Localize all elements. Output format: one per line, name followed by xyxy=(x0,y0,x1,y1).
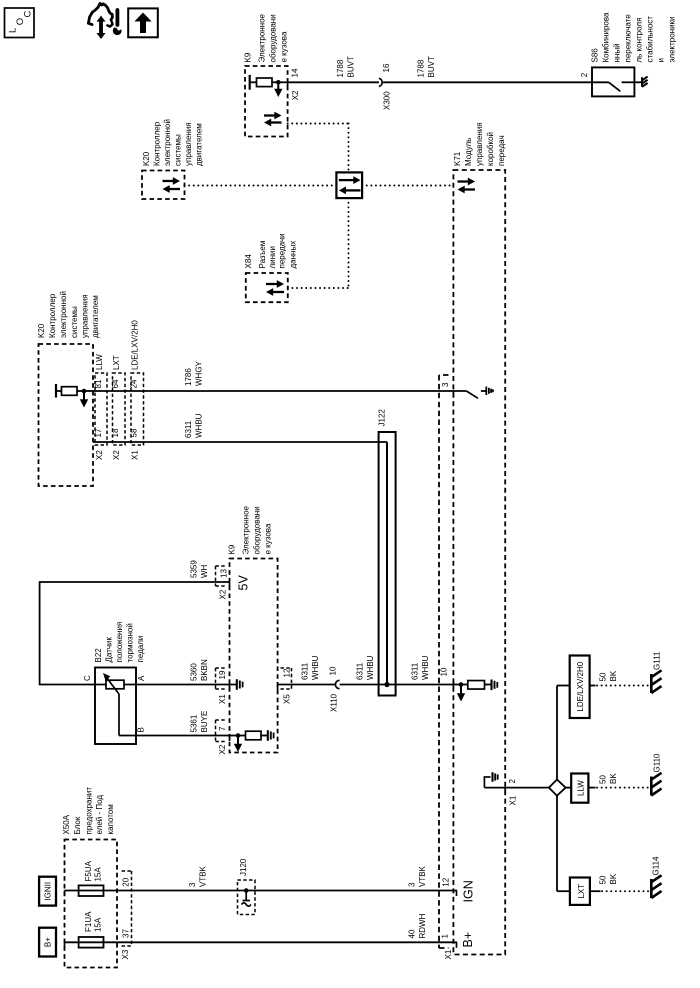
svg-text:12: 12 xyxy=(283,668,292,677)
pin 3 tick at K71 boundary xyxy=(452,391,454,397)
svg-text:RDWH: RDWH xyxy=(418,913,427,938)
G114 label xyxy=(652,856,661,876)
pin 37 label xyxy=(122,929,131,938)
svg-text:WHBU: WHBU xyxy=(421,655,430,680)
svg-text:17: 17 xyxy=(94,428,103,437)
wire label 3 VTBK (right) xyxy=(408,865,428,887)
svg-text:J120: J120 xyxy=(239,858,248,876)
svg-text:X300: X300 xyxy=(383,91,392,110)
svg-text:X2: X2 xyxy=(95,450,104,460)
K71 internal arrow (pin 10) xyxy=(457,687,465,702)
B+ label inside K71 xyxy=(461,932,475,948)
X84 DLC dashed box xyxy=(246,273,288,302)
svg-text:C: C xyxy=(83,675,92,681)
svg-text:VTBK: VTBK xyxy=(199,865,208,887)
svg-text:электронной: электронной xyxy=(59,291,68,338)
IGN label inside K71 xyxy=(462,880,476,902)
svg-text:19: 19 xyxy=(218,670,227,679)
wire 40 RDWH (battery feed) xyxy=(65,942,458,948)
svg-text:X50A: X50A xyxy=(62,814,71,834)
svg-text:5361: 5361 xyxy=(190,714,199,732)
svg-text:50: 50 xyxy=(599,775,608,784)
K9 internal arrow (pin 7) xyxy=(234,738,242,753)
K20 engine controller dashed box xyxy=(39,344,94,486)
K20 internal resistor xyxy=(56,387,77,396)
wire label 50 BK (G110) xyxy=(599,773,619,784)
K9 internal resistor (pin 7) xyxy=(246,731,262,740)
pin 13 tick at K9 boundary xyxy=(229,582,231,588)
svg-text:5359: 5359 xyxy=(190,560,199,578)
svg-text:K20: K20 xyxy=(142,151,151,166)
pin 10 label (K71) xyxy=(440,667,449,676)
K9 (middle) label xyxy=(228,505,273,554)
pin 12 tick xyxy=(277,685,279,691)
wire label 1788 BUVT (right) xyxy=(417,56,437,77)
ground inside K9 (pin 7) xyxy=(261,730,274,741)
pin 58 label xyxy=(130,428,139,437)
IGNII feed tag xyxy=(39,877,56,906)
connector X1 label (pin 58) xyxy=(131,450,140,460)
pin 3 label (K71) xyxy=(441,382,450,387)
pin 1 label (K71 X1) xyxy=(441,934,450,939)
svg-text:BKBN: BKBN xyxy=(200,659,209,681)
connector X3 label xyxy=(121,949,130,959)
K9 internal output arrow xyxy=(274,84,282,97)
wire label 6311 WHBU (middle) xyxy=(356,655,376,680)
svg-text:LDE/LXV/2H0: LDE/LXV/2H0 xyxy=(576,661,585,711)
svg-text:электроники: электроники xyxy=(668,16,677,62)
ground symbol inside K71 (pin 2) xyxy=(484,772,497,787)
svg-text:14: 14 xyxy=(291,68,300,77)
svg-text:S86: S86 xyxy=(591,48,600,63)
X110 label xyxy=(330,693,339,712)
svg-text:BUYE: BUYE xyxy=(200,711,209,733)
X50A label xyxy=(62,787,115,835)
svg-text:81: 81 xyxy=(94,379,103,388)
K71 X1 connector bracket xyxy=(439,375,449,948)
K9 internal pull-up node (pin 7) xyxy=(230,733,246,738)
pin 13 label xyxy=(220,569,229,578)
K9 internal resistor xyxy=(250,78,272,87)
svg-text:LLW: LLW xyxy=(576,780,585,796)
svg-text:24: 24 xyxy=(130,379,139,388)
svg-text:оборудовани: оборудовани xyxy=(269,14,278,62)
svg-text:Модуль: Модуль xyxy=(464,138,473,166)
ground G114 xyxy=(651,875,661,898)
svg-text:20: 20 xyxy=(122,877,131,886)
svg-text:двигателем: двигателем xyxy=(195,123,204,166)
X84 data-link arrows xyxy=(266,280,284,296)
pin 14 label xyxy=(291,68,300,77)
svg-text:BUVT: BUVT xyxy=(427,56,436,77)
ground inside K9 (pin 19) xyxy=(230,679,243,690)
svg-text:стабильност: стабильност xyxy=(646,16,655,63)
svg-text:коробкой: коробкой xyxy=(486,132,495,166)
svg-text:LDE/LXV/2H0: LDE/LXV/2H0 xyxy=(131,320,140,370)
inline data connector box xyxy=(336,172,362,198)
wire splice to LLW xyxy=(566,787,572,789)
svg-text:ль контроля: ль контроля xyxy=(635,18,644,63)
K9 internal B+ bar xyxy=(249,75,251,90)
pin 19 label xyxy=(218,670,227,679)
svg-text:положения: положения xyxy=(115,622,124,663)
G110 label xyxy=(653,753,662,773)
connector X1 label (pin 19) xyxy=(218,694,227,704)
pin 12 label xyxy=(283,668,292,677)
K20 internal output node xyxy=(77,389,93,394)
svg-text:WHGY: WHGY xyxy=(195,360,204,386)
pin A label xyxy=(137,675,146,681)
variant label LDE/LXV/2H0 xyxy=(131,320,140,370)
pin 7 label xyxy=(218,726,227,731)
svg-text:K71: K71 xyxy=(453,151,462,166)
svg-text:37: 37 xyxy=(122,929,131,938)
svg-text:системы: системы xyxy=(70,306,79,338)
pin 19 bracket xyxy=(216,668,228,689)
svg-text:6311: 6311 xyxy=(411,662,420,680)
pin 2 label (S86) xyxy=(580,72,589,77)
variant pin box LXT xyxy=(113,373,126,445)
svg-text:и: и xyxy=(657,58,666,62)
wire label 5361 BUYE xyxy=(190,711,210,733)
wire splice to LXT xyxy=(557,796,570,892)
svg-text:13: 13 xyxy=(220,569,229,578)
svg-text:елей - Под: елей - Под xyxy=(95,795,104,835)
svg-text:предохранит: предохранит xyxy=(85,787,94,835)
pin 18 label xyxy=(111,428,120,437)
svg-text:переключате: переключате xyxy=(624,14,633,63)
svg-text:линии: линии xyxy=(268,246,277,269)
svg-text:X2: X2 xyxy=(291,90,300,100)
S86 internal switch xyxy=(592,82,634,91)
svg-text:6311: 6311 xyxy=(301,662,310,680)
svg-text:Блок: Блок xyxy=(73,816,82,834)
svg-text:нный: нный xyxy=(613,43,622,62)
svg-text:IGNII: IGNII xyxy=(43,882,52,901)
svg-text:X1: X1 xyxy=(131,450,140,460)
svg-text:3: 3 xyxy=(441,382,450,387)
svg-text:10: 10 xyxy=(329,666,338,675)
wire label 5360 BKBN xyxy=(190,659,210,681)
vehicle-data/service icon xyxy=(88,3,121,39)
svg-text:K9: K9 xyxy=(244,52,253,62)
svg-text:1: 1 xyxy=(441,934,450,939)
connector X1 label (pin 2) xyxy=(509,795,518,805)
fuse F5UA xyxy=(79,885,104,896)
svg-text:G110: G110 xyxy=(653,753,662,773)
svg-text:X2: X2 xyxy=(218,744,227,754)
J120 label xyxy=(239,858,248,876)
svg-text:WHBU: WHBU xyxy=(195,413,204,438)
svg-text:BUVT: BUVT xyxy=(347,56,356,77)
svg-text:капотом: капотом xyxy=(106,804,115,834)
fuse F1UA label xyxy=(84,911,103,932)
K20 engine controller (top) dashed box xyxy=(142,171,185,200)
svg-text:VTBK: VTBK xyxy=(418,865,427,887)
dotted wire to G111 xyxy=(597,685,650,687)
B22 potentiometer xyxy=(95,680,136,689)
pin 14 tick at K9 boundary xyxy=(287,82,289,88)
svg-text:3: 3 xyxy=(408,882,417,887)
svg-text:LXT: LXT xyxy=(112,355,121,370)
dotted data wire from inline connector to X84 xyxy=(288,198,349,288)
dotted data wire from K9 xyxy=(288,124,349,172)
pin 10 tick xyxy=(452,681,454,688)
svg-text:Контроллер: Контроллер xyxy=(48,293,57,338)
svg-text:X1: X1 xyxy=(218,694,227,704)
chassis ground at S86 xyxy=(642,77,648,87)
S86 ground wire xyxy=(634,81,642,83)
svg-text:Электронное: Электронное xyxy=(242,505,251,554)
K71 internal node (pin 10) xyxy=(453,682,467,687)
wire label 6311 WHBU upper xyxy=(184,413,204,438)
svg-text:BK: BK xyxy=(609,670,618,681)
svg-text:15A: 15A xyxy=(94,867,103,882)
pin 2 label xyxy=(508,779,517,784)
svg-text:двигателем: двигателем xyxy=(91,295,100,338)
svg-text:WHBU: WHBU xyxy=(311,655,320,680)
svg-text:данных: данных xyxy=(289,241,298,269)
B22 sensor box xyxy=(95,668,136,745)
wire label 50 BK (G111) xyxy=(599,670,619,681)
svg-text:е кузова: е кузова xyxy=(280,31,289,62)
wire 1788 BUVT (K9 to X300) xyxy=(288,81,379,83)
fuse F5UA label xyxy=(84,860,103,881)
wire label 6311 WHBU (left) xyxy=(301,655,321,680)
wire label 50 BK (G114) xyxy=(599,873,619,884)
pin B label xyxy=(137,727,146,732)
wire K71 pin 2 to ground splice xyxy=(484,788,549,794)
wire 3 VTBK (ignition feed) xyxy=(65,891,458,897)
K20 (top) label xyxy=(142,119,204,166)
svg-text:J122: J122 xyxy=(378,409,387,427)
wire 6311 WHBU (X110 to K71) xyxy=(340,682,454,687)
svg-text:3: 3 xyxy=(188,882,197,887)
inline connector X110 xyxy=(335,680,339,688)
svg-text:Электронное: Электронное xyxy=(258,13,267,62)
wire 1788 BUVT (X300 to S86) xyxy=(383,81,592,83)
wire label 1788 BUVT (left) xyxy=(336,56,356,77)
svg-text:L: L xyxy=(8,28,19,33)
svg-text:6311: 6311 xyxy=(184,420,193,438)
svg-text:2: 2 xyxy=(508,779,517,784)
connector X1 label (K71 bottom) xyxy=(444,949,453,959)
variant pin box LDE/LXV/2H0 xyxy=(131,373,144,445)
svg-text:педали: педали xyxy=(136,636,145,663)
ground splice diamond xyxy=(549,780,566,796)
K9 data-link arrows xyxy=(264,112,282,127)
svg-text:6311: 6311 xyxy=(356,662,365,680)
G111 label xyxy=(653,651,662,670)
svg-text:WH: WH xyxy=(200,564,209,578)
svg-text:5360: 5360 xyxy=(190,663,199,681)
variant label LXT xyxy=(112,355,121,370)
svg-text:системы: системы xyxy=(174,134,183,166)
svg-text:X84: X84 xyxy=(244,254,253,269)
svg-text:LLW: LLW xyxy=(95,354,104,370)
S86 switch box xyxy=(592,67,634,96)
pin 64 label xyxy=(111,379,120,388)
svg-text:е кузова: е кузова xyxy=(264,523,273,554)
LLW variant tag xyxy=(571,774,588,803)
K9 (top) label xyxy=(244,13,289,62)
inline connector X300 xyxy=(379,78,382,86)
svg-text:Разъем: Разъем xyxy=(258,241,267,269)
wire label 40 RDWH xyxy=(408,913,428,938)
svg-text:58: 58 xyxy=(130,428,139,437)
svg-text:X1: X1 xyxy=(444,949,453,959)
forward/up arrow icon xyxy=(128,8,158,37)
svg-text:A: A xyxy=(137,675,146,681)
svg-text:1788: 1788 xyxy=(417,59,426,77)
S86 label xyxy=(591,12,677,63)
svg-text:15A: 15A xyxy=(94,917,103,932)
svg-text:передач: передач xyxy=(497,135,506,166)
svg-text:BK: BK xyxy=(609,873,618,884)
pin 12 bracket (K9 X5) xyxy=(281,668,292,689)
svg-text:передачи: передачи xyxy=(278,233,287,268)
pin 17 label xyxy=(94,428,103,437)
LOC legend icon xyxy=(5,8,35,38)
svg-text:C: C xyxy=(23,11,34,18)
connector X2 label (K9 pin 14) xyxy=(291,90,300,100)
pin 24 label xyxy=(130,379,139,388)
svg-text:5V: 5V xyxy=(237,575,251,591)
svg-text:LXT: LXT xyxy=(577,884,586,899)
X3 connector bracket xyxy=(122,871,132,946)
wire stub right of LXT tag xyxy=(590,890,601,892)
pin 12 tick xyxy=(456,891,458,897)
connector X2 label (pin 7) xyxy=(218,744,227,754)
svg-text:B: B xyxy=(137,727,146,732)
svg-text:1788: 1788 xyxy=(336,59,345,77)
K71 data-link arrows xyxy=(458,178,476,194)
svg-text:X2: X2 xyxy=(112,450,121,460)
wire stub right of LDE tag xyxy=(590,685,596,687)
svg-text:F1UA: F1UA xyxy=(84,911,93,932)
pin 81 label xyxy=(94,379,103,388)
svg-text:Комбинирова: Комбинирова xyxy=(602,12,611,63)
svg-text:1786: 1786 xyxy=(184,368,193,386)
LXT variant tag xyxy=(570,878,590,905)
svg-text:X3: X3 xyxy=(121,949,130,959)
svg-text:2: 2 xyxy=(580,72,589,77)
svg-text:18: 18 xyxy=(111,428,120,437)
K71 label xyxy=(453,122,506,166)
pin 7 bracket xyxy=(216,720,228,742)
svg-text:40: 40 xyxy=(408,929,417,938)
wire 5361 BUYE (B22 pin B to K9) xyxy=(119,735,230,737)
wire 6311 WHBU (K9 to X110) xyxy=(278,684,336,686)
pin C label xyxy=(83,675,92,681)
ground at K71 switch xyxy=(486,387,493,395)
svg-text:50: 50 xyxy=(599,875,608,884)
dotted wire to G110 xyxy=(597,787,650,789)
wire 6311 WHBU upper xyxy=(93,441,387,443)
svg-text:B+: B+ xyxy=(461,932,475,948)
svg-text:K20: K20 xyxy=(37,323,46,338)
pin 7 tick xyxy=(229,736,231,742)
svg-text:электронной: электронной xyxy=(163,119,172,166)
K20 internal B+ bar xyxy=(55,384,57,398)
K71 internal switch xyxy=(466,391,486,398)
svg-text:управления: управления xyxy=(184,122,193,166)
svg-text:оборудовани: оборудовани xyxy=(253,506,262,554)
K71 internal resistor (pin 10) xyxy=(468,681,485,690)
X84 label xyxy=(244,233,298,268)
J120 splice xyxy=(238,880,256,915)
svg-text:X5: X5 xyxy=(283,694,292,704)
wire 1786 WHGY xyxy=(93,390,466,392)
B22 label xyxy=(94,622,145,663)
wire 5360 BKBN (B22 pin A to K9) xyxy=(136,684,230,686)
svg-text:тормозной: тормозной xyxy=(126,623,135,662)
svg-text:16: 16 xyxy=(382,63,391,72)
svg-text:50: 50 xyxy=(599,672,608,681)
svg-text:управления: управления xyxy=(475,122,484,166)
svg-text:WHBU: WHBU xyxy=(366,655,375,680)
fuse F1UA xyxy=(79,937,104,948)
svg-text:O: O xyxy=(15,18,26,25)
svg-text:IGN: IGN xyxy=(462,880,476,902)
connector X2 label (pin 13) xyxy=(219,589,228,599)
svg-text:X110: X110 xyxy=(330,693,339,712)
svg-text:G111: G111 xyxy=(653,651,662,670)
B22 wiper arm xyxy=(103,673,119,736)
5V reference label xyxy=(237,575,251,591)
pin 10 label (X110) xyxy=(329,666,338,675)
svg-text:10: 10 xyxy=(440,667,449,676)
ground inside K71 (pin 10) xyxy=(485,680,498,691)
LDE/LXV/2H0 variant tag xyxy=(570,656,590,719)
pin 12 label (K71 X1) xyxy=(442,877,451,886)
svg-text:X1: X1 xyxy=(509,795,518,805)
X50A fuse block dashed box xyxy=(65,840,118,968)
pin 13 bracket xyxy=(216,566,227,586)
wire splice to LDE/LXV/2H0 xyxy=(557,686,570,780)
connector X5 label (pin 12) xyxy=(283,694,292,704)
svg-text:F5UA: F5UA xyxy=(84,860,93,881)
ground G110 xyxy=(651,773,661,796)
K20 label xyxy=(37,291,100,338)
svg-text:7: 7 xyxy=(218,726,227,731)
wire label 1786 WHGY xyxy=(184,360,204,386)
X300 label xyxy=(383,91,392,110)
svg-text:BK: BK xyxy=(609,773,618,784)
svg-text:K9: K9 xyxy=(228,544,237,554)
K20 (top) data-link arrows xyxy=(163,177,181,193)
J122 splice pack xyxy=(379,432,396,696)
wire label 6311 WHBU (right) xyxy=(411,655,431,680)
connector X2 label (pin 18) xyxy=(112,450,121,460)
svg-text:Датчик: Датчик xyxy=(105,637,114,663)
wire stub right of LLW tag xyxy=(588,787,595,789)
svg-text:64: 64 xyxy=(111,379,120,388)
svg-text:X2: X2 xyxy=(219,589,228,599)
variant label LLW xyxy=(95,354,104,370)
dotted wire to G114 xyxy=(602,890,650,892)
svg-text:B22: B22 xyxy=(94,648,103,663)
pin 1 tick xyxy=(456,942,458,948)
wire to 5V reference (B22 pin C path) xyxy=(40,581,230,685)
variant pin box LLW xyxy=(95,373,107,445)
svg-text:управления: управления xyxy=(81,294,90,338)
svg-text:G114: G114 xyxy=(652,856,661,876)
wire label 3 VTBK (left) xyxy=(188,865,208,887)
pin 20 label xyxy=(122,877,131,886)
svg-text:B+: B+ xyxy=(43,937,52,947)
svg-text:12: 12 xyxy=(442,877,451,886)
